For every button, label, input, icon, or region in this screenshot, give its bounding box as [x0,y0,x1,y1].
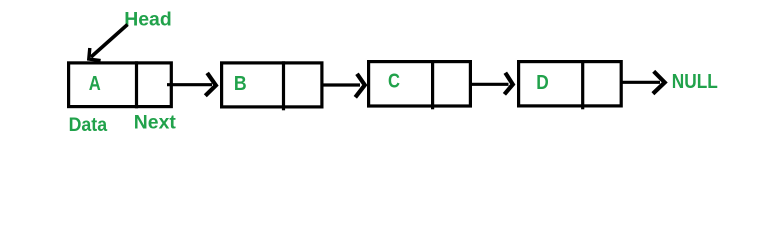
label Next [134,113,177,134]
node A data label [89,73,101,95]
svg-text:C: C [388,71,400,93]
node C data label [388,71,400,93]
label NULL terminator [672,71,718,93]
node B data label [234,73,247,95]
node A box [69,61,172,108]
svg-text:Data: Data [69,115,108,136]
node C box [369,60,471,109]
svg-text:Head: Head [124,9,172,31]
svg-text:B: B [234,73,247,95]
svg-text:D: D [536,72,549,94]
node B box [222,61,322,110]
svg-text:NULL: NULL [672,71,718,93]
label Data [69,115,108,136]
wire arrow D to NULL [620,71,665,93]
wire arrow B to C [321,74,365,98]
label Head [124,9,172,31]
node D box [519,60,622,109]
wire Head pointer arrow [89,25,128,61]
wire arrow A to B [167,73,216,96]
svg-text:Next: Next [134,113,177,134]
wire arrow C to D [470,73,513,95]
node D data label [536,72,549,94]
svg-text:A: A [89,73,101,95]
